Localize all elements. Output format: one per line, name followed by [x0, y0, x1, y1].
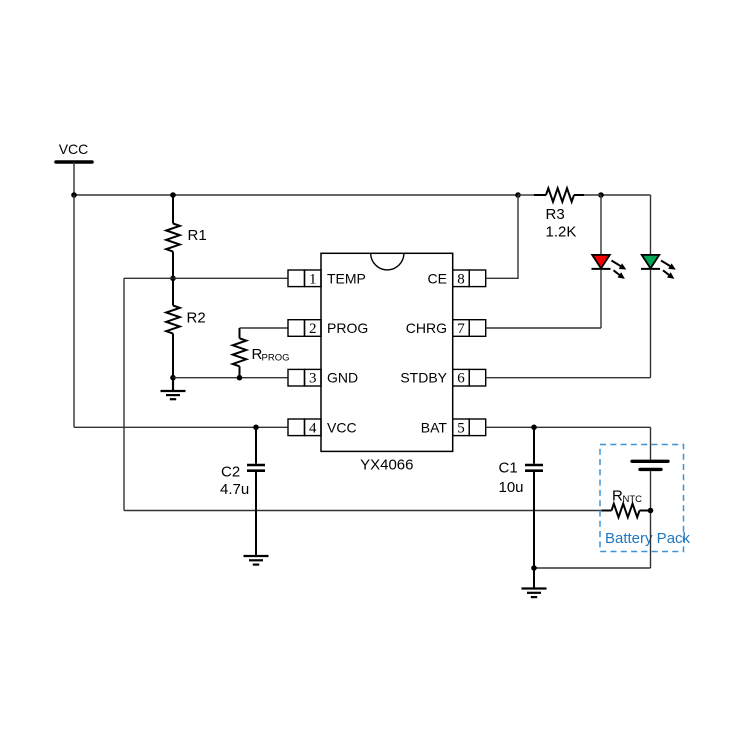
- svg-text:TEMP: TEMP: [327, 270, 366, 286]
- svg-text:NTC: NTC: [623, 494, 643, 505]
- node: GND row junction at R2: [170, 375, 176, 381]
- wire: VCC row to pin 4: [74, 426, 288, 428]
- resistor R2: [166, 278, 180, 377]
- svg-text:2: 2: [309, 321, 317, 337]
- resistor R1: [166, 195, 180, 278]
- svg-text:R1: R1: [188, 227, 207, 244]
- node: VCC stub junction: [71, 192, 77, 198]
- svg-text:1: 1: [309, 271, 317, 287]
- wire: CE to rail: [486, 195, 518, 278]
- wire: green LED to STDBY row: [650, 270, 652, 378]
- svg-text:STDBY: STDBY: [400, 370, 447, 386]
- node: R1/R2 junction: [170, 276, 176, 282]
- battery pack dashed box: [600, 445, 684, 552]
- node: R1 top junction: [170, 192, 176, 198]
- svg-text:10u: 10u: [499, 479, 524, 496]
- svg-text:6: 6: [457, 371, 465, 387]
- pin 4 boxes: [288, 419, 321, 436]
- svg-text:R2: R2: [187, 310, 206, 327]
- wire: RPROG top to pin 2: [240, 327, 289, 329]
- svg-text:YX4066: YX4066: [360, 457, 413, 474]
- wire: battery bottom down: [650, 471, 652, 568]
- wire: left vertical to RNTC row: [123, 278, 125, 510]
- resistor RPROG: [233, 328, 247, 378]
- label RPROG: [252, 346, 290, 364]
- IC notch: [371, 253, 404, 270]
- resistor RNTC: [602, 504, 649, 518]
- wire: GND row to pin 3: [173, 377, 288, 379]
- svg-text:C1: C1: [499, 460, 518, 477]
- svg-text:5: 5: [457, 420, 465, 436]
- node: C2 top junction: [253, 425, 259, 431]
- svg-text:3: 3: [309, 371, 317, 387]
- ground (under C2): [244, 556, 269, 565]
- pin 6 boxes: [453, 369, 486, 386]
- svg-text:1.2K: 1.2K: [546, 224, 577, 241]
- wire: green LED branch upper: [650, 195, 652, 255]
- wire: RNTC horizontal run: [124, 510, 603, 512]
- svg-text:4: 4: [309, 420, 317, 436]
- label RNTC: [612, 488, 642, 506]
- svg-text:PROG: PROG: [327, 320, 368, 336]
- node: C1 bottom junction: [531, 565, 537, 571]
- svg-text:C2: C2: [221, 464, 240, 481]
- pin 2 boxes: [288, 320, 321, 337]
- wire: red LED to CHRG row: [600, 270, 602, 328]
- svg-text:R: R: [612, 488, 623, 505]
- svg-text:8: 8: [457, 271, 465, 287]
- VCC power symbol: [56, 141, 92, 162]
- svg-text:PROG: PROG: [262, 353, 290, 364]
- wire: R3 left thin lead: [518, 194, 534, 196]
- capacitor C1: [525, 427, 543, 568]
- node: R3 left junction: [515, 192, 521, 198]
- ground (left, under R2): [161, 378, 186, 400]
- wire: red LED branch upper: [600, 195, 602, 255]
- IC U1 YX4066 body: [321, 253, 453, 451]
- svg-text:CHRG: CHRG: [406, 320, 447, 336]
- battery BT1: [632, 461, 668, 469]
- wire: TEMP row left to vertical: [124, 277, 173, 279]
- wire: battery pack bottom leftward: [534, 567, 651, 569]
- pin 5 boxes: [453, 419, 486, 436]
- pin 3 boxes: [288, 369, 321, 386]
- svg-text:VCC: VCC: [327, 419, 357, 435]
- wire: C1 to ground stem: [533, 568, 535, 589]
- svg-text:GND: GND: [327, 370, 358, 386]
- capacitor C2: [247, 427, 265, 556]
- wire: STDBY to green LED: [486, 377, 651, 379]
- wire: VCC stub down: [73, 162, 75, 195]
- svg-text:R3: R3: [546, 206, 565, 223]
- node: C1 top junction: [531, 425, 537, 431]
- pin 8 boxes: [453, 270, 486, 287]
- resistor R3: [534, 188, 584, 202]
- wire: CHRG to red LED: [486, 327, 601, 329]
- svg-text:VCC: VCC: [59, 141, 89, 157]
- node: R3 right junction: [598, 192, 604, 198]
- wire: BAT row: [486, 426, 651, 428]
- pin 7 boxes: [453, 320, 486, 337]
- svg-text:Battery Pack: Battery Pack: [605, 530, 691, 547]
- LED D2 (green): [641, 255, 676, 279]
- svg-text:7: 7: [457, 321, 465, 337]
- svg-text:CE: CE: [428, 270, 447, 286]
- wire: BAT corner down to battery: [650, 427, 652, 460]
- pin 1 boxes: [288, 270, 321, 287]
- svg-text:4.7u: 4.7u: [220, 481, 249, 498]
- wire: R3 right thin lead: [584, 194, 601, 196]
- svg-text:BAT: BAT: [421, 419, 448, 435]
- node: RPROG bottom junction: [237, 375, 243, 381]
- ground (under C1): [522, 589, 547, 598]
- wire: VCC rail horizontal: [74, 194, 518, 196]
- wire: left VCC vertical down: [73, 195, 75, 427]
- LED D1 (red): [592, 255, 627, 279]
- wire: rail from R3 to LED corner: [601, 194, 651, 196]
- node: RNTC/battery junction: [648, 508, 654, 514]
- wire: TEMP row to pin 1: [173, 277, 288, 279]
